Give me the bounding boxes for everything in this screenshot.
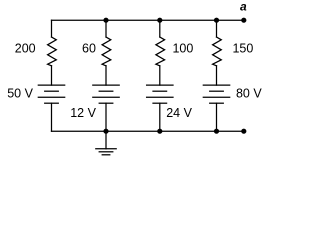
svg-text:24 V: 24 V	[166, 106, 192, 120]
svg-text:50 V: 50 V	[7, 87, 33, 101]
svg-text:80 V: 80 V	[236, 87, 262, 101]
svg-text:12 V: 12 V	[70, 106, 96, 120]
svg-text:a: a	[240, 0, 247, 14]
svg-text:100: 100	[172, 41, 193, 55]
svg-text:150: 150	[232, 41, 253, 55]
svg-text:60: 60	[82, 41, 96, 55]
svg-text:200: 200	[15, 41, 36, 55]
